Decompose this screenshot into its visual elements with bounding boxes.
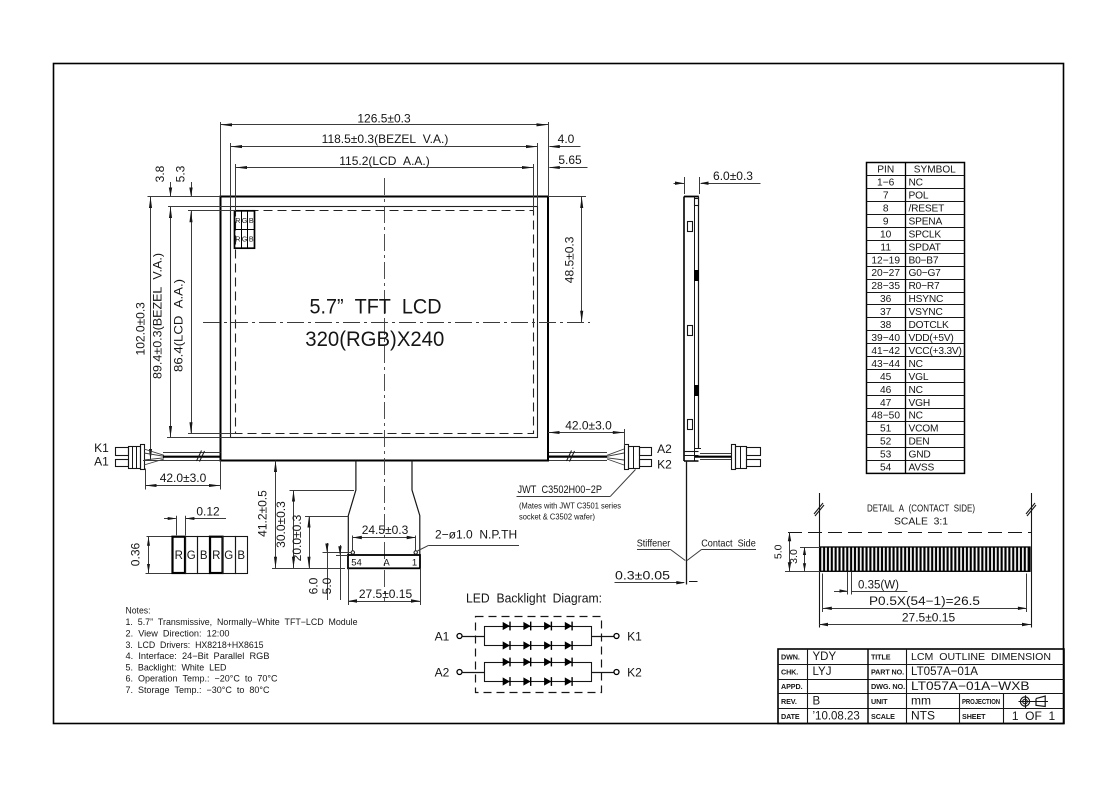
svg-text:38: 38 — [880, 320, 892, 331]
svg-text:42.0±3.0: 42.0±3.0 — [160, 471, 207, 485]
svg-text:1. 5.7” Transmissive, Norma: 1. 5.7” Transmissive, Normally−White TFT… — [126, 617, 358, 627]
svg-text:47: 47 — [880, 398, 892, 409]
svg-text:G0−G7: G0−G7 — [909, 268, 942, 279]
svg-text:126.5±0.3: 126.5±0.3 — [357, 111, 411, 125]
svg-text:A2: A2 — [657, 442, 672, 456]
svg-text:(Mates with JWT C3501 series: (Mates with JWT C3501 series — [519, 501, 622, 511]
svg-text:53: 53 — [880, 450, 892, 461]
svg-text:CHK.: CHK. — [781, 667, 798, 676]
svg-text:0.12: 0.12 — [196, 504, 220, 518]
svg-text:42.0±3.0: 42.0±3.0 — [565, 418, 612, 432]
svg-text:HSYNC: HSYNC — [909, 294, 944, 305]
svg-text:52: 52 — [880, 437, 892, 448]
svg-text:6.0±0.3: 6.0±0.3 — [713, 169, 753, 183]
svg-text:G: G — [242, 234, 248, 243]
svg-text:GND: GND — [909, 450, 931, 461]
svg-text:36: 36 — [880, 294, 892, 305]
svg-text:11: 11 — [880, 242, 891, 253]
svg-text:0.36: 0.36 — [129, 542, 143, 566]
svg-text:NC: NC — [909, 411, 923, 422]
svg-text:SCALE 3:1: SCALE 3:1 — [894, 517, 948, 528]
svg-text:20−27: 20−27 — [871, 268, 900, 279]
svg-text:LED Backlight Diagram:: LED Backlight Diagram: — [466, 592, 602, 606]
svg-text:SPENA: SPENA — [909, 216, 943, 227]
svg-text:SYMBOL: SYMBOL — [914, 165, 956, 176]
svg-text:DOTCLK: DOTCLK — [909, 320, 950, 331]
svg-text:B0−B7: B0−B7 — [909, 255, 939, 266]
svg-text:3. LCD Drivers: HX8218+HX86: 3. LCD Drivers: HX8218+HX8615 — [126, 640, 264, 650]
svg-text:5.65: 5.65 — [558, 153, 582, 167]
svg-text:G: G — [242, 216, 248, 225]
svg-text:3.0: 3.0 — [788, 549, 800, 564]
svg-text:JWT C3502H00−2P: JWT C3502H00−2P — [518, 484, 603, 496]
svg-text:4. Interface: 24−Bit Parall: 4. Interface: 24−Bit Parallel RGB — [126, 651, 270, 661]
svg-text:REV.: REV. — [781, 697, 797, 706]
svg-text:VCC(+3.3V): VCC(+3.3V) — [909, 346, 962, 357]
svg-text:LCM OUTLINE DIMENSION: LCM OUTLINE DIMENSION — [911, 651, 1051, 663]
svg-text:G: G — [187, 550, 196, 562]
svg-text:102.0±0.3: 102.0±0.3 — [134, 302, 148, 356]
svg-text:POL: POL — [909, 190, 929, 201]
svg-text:54: 54 — [351, 558, 362, 569]
svg-text:PART NO.: PART NO. — [871, 667, 904, 676]
svg-text:A: A — [383, 558, 390, 569]
svg-text:NC: NC — [909, 178, 923, 189]
svg-text:LYJ: LYJ — [813, 666, 832, 678]
svg-text:30.0±0.3: 30.0±0.3 — [274, 501, 288, 548]
svg-text:27.5±0.15: 27.5±0.15 — [902, 610, 956, 624]
svg-text:Contact Side: Contact Side — [701, 538, 756, 550]
svg-text:NC: NC — [909, 359, 923, 370]
svg-text:DATE: DATE — [781, 712, 800, 721]
svg-text:320(RGB)X240: 320(RGB)X240 — [305, 328, 444, 351]
svg-text:45: 45 — [880, 372, 892, 383]
svg-text:DEN: DEN — [909, 437, 930, 448]
svg-text:VGL: VGL — [909, 372, 929, 383]
svg-text:DWG. NO.: DWG. NO. — [871, 682, 905, 691]
svg-text:R: R — [175, 550, 183, 562]
svg-text:R: R — [235, 216, 240, 225]
svg-text:K1: K1 — [94, 441, 109, 455]
svg-text:2−ø1.0 N.P.TH: 2−ø1.0 N.P.TH — [435, 527, 517, 541]
svg-text:7. Storage Temp.: −30°C to: 7. Storage Temp.: −30°C to 80°C — [126, 685, 270, 695]
svg-text:89.4±0.3(BEZEL V.A.): 89.4±0.3(BEZEL V.A.) — [151, 253, 165, 379]
svg-text:0.3±0.05: 0.3±0.05 — [615, 569, 670, 583]
svg-text:DWN.: DWN. — [781, 652, 800, 661]
svg-text:6. Operation Temp.: −20°C: 6. Operation Temp.: −20°C to 70°C — [126, 674, 278, 684]
svg-text:K2: K2 — [657, 458, 672, 472]
svg-text:B: B — [813, 696, 821, 708]
svg-text:6.0: 6.0 — [307, 577, 321, 594]
svg-text:’10.08.23: ’10.08.23 — [813, 711, 860, 723]
svg-text:39−40: 39−40 — [871, 333, 900, 344]
svg-text:48.5±0.3: 48.5±0.3 — [563, 236, 577, 283]
svg-text:UNIT: UNIT — [871, 697, 888, 706]
svg-text:/RESET: /RESET — [909, 203, 945, 214]
svg-text:AVSS: AVSS — [909, 463, 935, 474]
svg-text:5.3: 5.3 — [174, 165, 188, 182]
svg-text:1−6: 1−6 — [877, 178, 895, 189]
svg-text:2. View Direction: 12:00: 2. View Direction: 12:00 — [126, 629, 230, 639]
svg-text:0.35(W): 0.35(W) — [858, 579, 899, 591]
svg-text:B: B — [200, 550, 208, 562]
svg-text:K1: K1 — [627, 629, 642, 643]
svg-text:LT057A−01A: LT057A−01A — [911, 664, 978, 678]
svg-text:37: 37 — [880, 307, 892, 318]
svg-text:VCOM: VCOM — [909, 424, 939, 435]
svg-text:12−19: 12−19 — [871, 255, 900, 266]
svg-text:SPCLK: SPCLK — [909, 229, 942, 240]
svg-text:mm: mm — [911, 694, 931, 708]
svg-text:7: 7 — [883, 190, 889, 201]
svg-text:NTS: NTS — [911, 709, 935, 723]
svg-text:118.5±0.3(BEZEL V.A.): 118.5±0.3(BEZEL V.A.) — [322, 132, 449, 146]
svg-text:Notes:: Notes: — [126, 605, 151, 615]
svg-text:1 OF 1: 1 OF 1 — [1012, 709, 1056, 723]
svg-text:R0−R7: R0−R7 — [909, 281, 941, 292]
svg-text:G: G — [224, 550, 233, 562]
svg-text:socket & C3502 wafer): socket & C3502 wafer) — [519, 512, 595, 522]
svg-text:24.5±0.3: 24.5±0.3 — [362, 523, 409, 537]
svg-text:20.0±0.3: 20.0±0.3 — [290, 514, 304, 561]
svg-text:P0.5X(54−1)=26.5: P0.5X(54−1)=26.5 — [869, 596, 980, 608]
svg-text:Stiffener: Stiffener — [637, 538, 671, 550]
svg-text:DETAIL A (CONTACT SIDE): DETAIL A (CONTACT SIDE) — [867, 504, 975, 515]
svg-text:51: 51 — [880, 424, 892, 435]
svg-text:8: 8 — [883, 203, 889, 214]
svg-text:NC: NC — [909, 385, 923, 396]
svg-text:41−42: 41−42 — [871, 346, 900, 357]
svg-text:46: 46 — [880, 385, 892, 396]
svg-text:VGH: VGH — [909, 398, 930, 409]
svg-text:TITLE: TITLE — [871, 652, 891, 661]
svg-text:LT057A−01A−WXB: LT057A−01A−WXB — [911, 679, 1030, 693]
svg-text:43−44: 43−44 — [871, 359, 900, 370]
svg-text:A2: A2 — [435, 665, 450, 679]
svg-text:4.0: 4.0 — [558, 132, 575, 146]
svg-text:YDY: YDY — [813, 651, 837, 663]
svg-text:A1: A1 — [435, 629, 450, 643]
svg-text:SCALE: SCALE — [871, 712, 895, 721]
svg-text:B: B — [249, 216, 254, 225]
svg-text:5.0: 5.0 — [773, 544, 785, 559]
svg-text:9: 9 — [883, 216, 889, 227]
svg-text:86.4(LCD A.A.): 86.4(LCD A.A.) — [172, 279, 186, 372]
svg-text:48−50: 48−50 — [871, 411, 900, 422]
svg-text:41.2±0.5: 41.2±0.5 — [256, 490, 270, 537]
svg-text:3.8: 3.8 — [153, 165, 167, 182]
svg-text:R: R — [212, 550, 220, 562]
svg-text:115.2(LCD A.A.): 115.2(LCD A.A.) — [339, 154, 429, 168]
svg-text:K2: K2 — [627, 665, 642, 679]
svg-text:VSYNC: VSYNC — [909, 307, 943, 318]
svg-text:R: R — [235, 234, 240, 243]
svg-text:28−35: 28−35 — [871, 281, 900, 292]
svg-text:54: 54 — [880, 463, 892, 474]
svg-text:10: 10 — [880, 229, 892, 240]
svg-text:5.7” TFT LCD: 5.7” TFT LCD — [310, 296, 442, 319]
svg-text:PROJECTION: PROJECTION — [962, 697, 1000, 706]
svg-text:APPD.: APPD. — [781, 682, 803, 691]
svg-text:27.5±0.15: 27.5±0.15 — [359, 587, 413, 601]
svg-text:5. Backlight: White LED: 5. Backlight: White LED — [126, 662, 227, 672]
svg-text:SHEET: SHEET — [962, 712, 986, 721]
svg-text:1: 1 — [412, 558, 417, 569]
svg-text:A1: A1 — [94, 455, 109, 469]
svg-text:SPDAT: SPDAT — [909, 242, 941, 253]
svg-text:B: B — [249, 234, 254, 243]
svg-text:5.0: 5.0 — [320, 577, 334, 594]
svg-text:B: B — [237, 550, 245, 562]
svg-text:PIN: PIN — [877, 165, 894, 176]
svg-text:VDD(+5V): VDD(+5V) — [909, 333, 954, 344]
